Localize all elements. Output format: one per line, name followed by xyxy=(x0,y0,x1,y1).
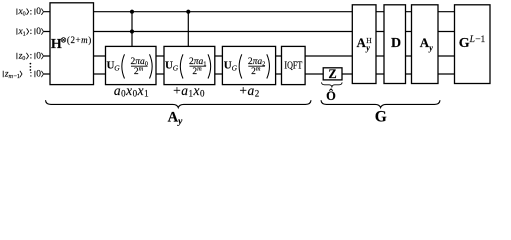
gate box UG1 xyxy=(106,46,157,84)
vertical dots between z0 and z(m-1) xyxy=(30,63,32,71)
control dot x1 for UG1 xyxy=(130,29,134,33)
underbrace Ay xyxy=(46,100,312,107)
svg-text:G: G xyxy=(114,64,120,73)
svg-text:0: 0 xyxy=(36,27,41,37)
svg-text:G: G xyxy=(459,36,470,51)
svg-text:0: 0 xyxy=(22,55,25,62)
otimes symbol of H label xyxy=(61,38,66,43)
label H^(2+m) xyxy=(51,35,92,52)
gate box IQFT xyxy=(282,46,306,84)
svg-text::: : xyxy=(30,7,33,17)
ket label |z0> : |0> xyxy=(17,51,44,62)
underbrace G xyxy=(321,100,440,107)
gate box D xyxy=(384,5,406,84)
ket label |x1> : |0> xyxy=(17,27,44,38)
svg-text:−1: −1 xyxy=(475,35,485,45)
svg-text:y: y xyxy=(177,117,183,126)
svg-text:Z: Z xyxy=(328,67,336,81)
svg-text:0: 0 xyxy=(23,11,26,18)
gate box G^(L-1) xyxy=(455,5,491,84)
underbrace O-hat (below Z) xyxy=(322,82,343,86)
ket label |x0> : |0> xyxy=(17,7,44,18)
wire |z(m-1)> xyxy=(44,73,460,75)
svg-text:IQFT: IQFT xyxy=(284,61,302,72)
svg-text:A: A xyxy=(420,35,430,50)
label Ay^H xyxy=(357,35,373,52)
svg-text:0: 0 xyxy=(36,69,41,79)
svg-text:1: 1 xyxy=(23,30,26,37)
svg-text:A: A xyxy=(168,110,179,126)
svg-text:U: U xyxy=(224,59,232,71)
svg-text:Ô: Ô xyxy=(326,89,336,103)
underbrace label Ay xyxy=(168,110,184,128)
wire |x1> xyxy=(44,31,460,33)
label UG1 U_G(2pi a0 / 2^m) xyxy=(107,54,153,78)
label G^(L-1) xyxy=(459,35,486,51)
label UG2 U_G(2pi a1 / 2^m) xyxy=(165,54,211,78)
ket label |z(m-1)> : |0> xyxy=(3,69,43,80)
control dot x0 for UG2 xyxy=(186,10,190,14)
svg-text:G: G xyxy=(375,109,387,126)
gate box H xyxy=(50,3,94,85)
label Ay xyxy=(420,35,434,52)
svg-text::: : xyxy=(30,52,33,62)
svg-text:−1: −1 xyxy=(13,73,20,80)
svg-text:G: G xyxy=(173,64,179,73)
gate box Ay xyxy=(412,5,439,84)
svg-text:A: A xyxy=(357,35,367,50)
svg-text:H: H xyxy=(51,37,62,52)
wire |x0> xyxy=(44,11,460,13)
svg-text:y: y xyxy=(428,43,433,52)
svg-text:U: U xyxy=(107,59,115,71)
svg-text:0: 0 xyxy=(36,7,41,17)
gate box UG2 xyxy=(164,46,215,84)
svg-text:L: L xyxy=(469,35,475,45)
control wire of UG1 xyxy=(131,12,133,48)
svg-text:D: D xyxy=(391,36,401,51)
control wire of UG2 xyxy=(187,12,189,48)
gate box AyH xyxy=(352,5,376,84)
svg-text:a0x0x1: a0x0x1 xyxy=(114,83,149,99)
svg-text:0: 0 xyxy=(36,51,41,61)
label UG3 U_G(2pi a2 / 2^m) xyxy=(224,54,270,78)
svg-text:(2+m): (2+m) xyxy=(67,35,92,45)
gate box UG3 xyxy=(222,46,275,84)
svg-text::: : xyxy=(30,27,33,37)
control dot x0 for UG1 xyxy=(130,10,134,14)
gate box Z xyxy=(323,68,342,80)
wire |z0> xyxy=(44,55,460,57)
svg-text::: : xyxy=(30,70,33,80)
svg-text:U: U xyxy=(165,59,173,71)
svg-text:H: H xyxy=(366,36,372,45)
svg-text:G: G xyxy=(232,64,238,73)
